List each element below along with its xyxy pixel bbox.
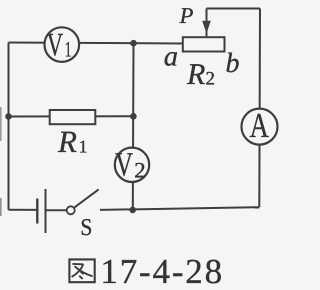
wire: top horizontal (node between battery+, V1, R2 a-end) [9, 43, 184, 44]
label b (rheostat right end) [226, 48, 240, 79]
svg-text:V: V [115, 147, 133, 184]
label S (switch) [80, 215, 92, 241]
caption: figure number 17-4-28 [100, 252, 222, 290]
wire: middle vertical (through V2) [132, 43, 135, 210]
svg-text:V: V [47, 27, 63, 63]
svg-text:a: a [164, 42, 178, 73]
svg-text:2: 2 [206, 69, 216, 90]
junction node: R1 wire / V2 branch [130, 113, 137, 120]
junction node: left rail / R1 [5, 113, 12, 120]
rheostat R2 slider arrowhead P [202, 21, 211, 34]
svg-text:A: A [250, 106, 270, 145]
label a (rheostat left end) [164, 42, 178, 73]
wire: left vertical [8, 43, 10, 210]
battery cell: long plate (positive) [45, 189, 47, 233]
wire: slider top horizontal [207, 8, 261, 10]
wire: battery to switch [46, 209, 67, 211]
wire: bottom right (switch to right rail) [100, 207, 259, 210]
svg-text:1: 1 [79, 137, 88, 157]
svg-text:2: 2 [134, 158, 146, 183]
junction node: bottom wire / V2 branch [129, 207, 136, 214]
rheostat R2 body [183, 37, 225, 51]
scan artifact: left edge streak lower [0, 198, 2, 216]
switch S: open lever [74, 189, 98, 207]
rheostat R2 slider stem [206, 9, 208, 37]
resistor R1 body [50, 110, 96, 124]
label A (meter face) [250, 106, 270, 145]
svg-text:R: R [57, 124, 77, 159]
caption: character 图 [69, 259, 94, 282]
voltmeter V1 body [45, 27, 80, 62]
wire: right vertical rail (through ammeter) [258, 9, 261, 208]
voltmeter V2 body [115, 148, 149, 182]
ammeter A body [242, 109, 278, 145]
svg-text:P: P [179, 3, 194, 28]
svg-text:b: b [226, 48, 240, 79]
svg-text:1: 1 [65, 36, 72, 61]
label V2 (meter face) [115, 147, 146, 184]
wire: R1 branch horizontal [9, 115, 134, 117]
battery cell: short plate (negative) [36, 199, 38, 224]
scan artifact: left edge streak upper [0, 107, 2, 141]
switch S: pivot circle [67, 206, 75, 214]
junction node: top wire / V2 branch [130, 40, 137, 47]
label R2 [186, 58, 215, 91]
wire: bottom left (to battery) [9, 209, 38, 211]
svg-text:R: R [186, 58, 205, 91]
label V1 (meter face) [47, 27, 72, 63]
label P (slider) [179, 3, 194, 28]
svg-text:S: S [80, 215, 92, 241]
label R1 [57, 124, 88, 159]
